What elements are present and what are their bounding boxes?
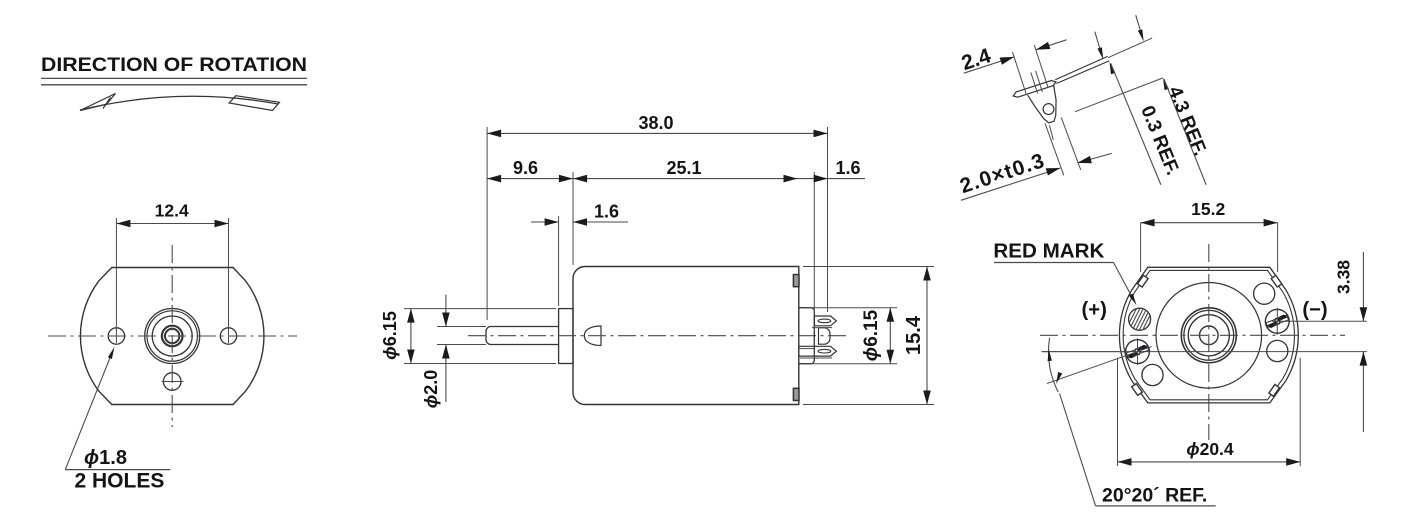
angle underline [1096,505,1216,507]
terminal bracket [819,328,831,344]
angle leader [1060,394,1096,506]
svg-text:ϕ6.15: ϕ6.15 [380,311,400,360]
side centerline [468,335,848,337]
dim 9.6/25.1 extension mid [572,172,574,265]
svg-text:ϕ2.0: ϕ2.0 [421,370,441,409]
leader phi1.8 [65,352,112,470]
rear horizontal centerline [1040,334,1345,336]
dim 15.4 line [926,267,928,405]
svg-text:2.4: 2.4 [959,44,994,75]
rear notch bottom-right [1269,385,1280,397]
terminal boss [799,308,815,364]
rear notch top-right [1271,275,1282,287]
dimension 12.4 extension lines [115,218,117,330]
svg-text:(+): (+) [1082,299,1107,321]
dim phi20.4 line [1118,461,1301,463]
svg-text:2 HOLES: 2 HOLES [75,470,165,493]
rear outline outer [1119,267,1298,403]
rear notch bottom-left [1132,384,1143,396]
svg-text:1.6: 1.6 [594,202,619,222]
dim 1.6 lower ext [558,216,560,306]
front hole right [220,328,236,344]
dim 1.6 right arrow [814,175,828,183]
terminal detail view (rotated) [917,0,1219,258]
rear endcap circle [1156,283,1262,389]
double underline [41,77,307,79]
rear notch top-left [1138,275,1149,287]
svg-text:ϕ20.4: ϕ20.4 [1186,439,1234,459]
dim 25.1 arrows [573,175,587,183]
angle ray horizontal [1042,351,1126,353]
dim 38.0 extension right [827,127,829,312]
rotation arc arrow [80,96,278,110]
dim 15.2 ext [1140,223,1142,272]
dim phi6.15 right line [889,308,891,364]
dimension 12.4 line [116,223,228,225]
svg-text:2.0×t0.3: 2.0×t0.3 [957,149,1048,198]
front hole bottom [163,373,181,391]
terminal height line lower [1042,351,1367,353]
rear bearing rings [1181,308,1236,363]
dim phi6.15 right ext [803,307,897,309]
dim row line [487,178,865,180]
front bushing middle circle [152,316,192,356]
svg-text:25.1: 25.1 [666,158,701,178]
svg-text:1.6: 1.6 [835,158,860,178]
dim 38.0 line [487,132,827,134]
terminal plus [1122,336,1153,367]
side shaft [486,327,559,345]
terminal bottom tab [799,346,837,356]
terminal minus [1262,306,1293,337]
rear vent top-right [1254,283,1275,304]
svg-text:15.2: 15.2 [1191,199,1225,219]
front hole left [108,328,124,344]
dim phi2.0 ext [437,326,486,328]
front horizontal centerline [48,335,297,337]
dim ext 814 [813,172,815,312]
rear vertical centerline [1208,244,1210,440]
svg-text:9.6: 9.6 [513,158,538,178]
dim 9.6 arrows [487,175,501,183]
dim phi6.15 left ext [404,308,556,310]
svg-text:38.0: 38.0 [638,113,673,133]
dim 1.6 lower line [531,221,559,223]
front view body outline [80,268,264,405]
svg-text:(−): (−) [1302,299,1327,321]
dim 38.0 extension left [486,127,488,320]
svg-text:ϕ1.8: ϕ1.8 [84,447,127,469]
side body outline [573,267,799,405]
front vertical centerline [171,245,173,427]
side bushing [559,309,573,364]
terminal top tab [814,316,836,326]
svg-text:15.4: 15.4 [903,315,925,355]
side crimp tab bottom [793,388,799,400]
terminal height line upper [1272,320,1367,322]
dim phi6.15 left line [410,309,412,364]
side internal shaft dome [584,326,601,346]
front bushing outer double circle [145,309,200,364]
svg-text:ϕ6.15: ϕ6.15 [861,309,882,361]
svg-text:12.4: 12.4 [155,200,189,220]
front hole tick marks [115,329,117,343]
red mark underline [994,262,1114,264]
svg-text:DIRECTION OF ROTATION: DIRECTION OF ROTATION [41,54,307,76]
svg-text:3.38: 3.38 [1334,260,1354,294]
dim 15.4 ext [803,266,934,268]
dim 15.2 line [1141,222,1278,224]
dim phi2.0 line [445,295,447,327]
rear vent bottom-left [1142,364,1163,385]
svg-text:20°20´ REF.: 20°20´ REF. [1102,484,1207,506]
dim 3.38 line [1362,252,1364,321]
dim phi20.4 ext [1117,358,1119,466]
red mark leader [1114,263,1135,302]
angle ray slanted [1047,347,1152,384]
svg-text:RED MARK: RED MARK [993,240,1105,262]
rear vent bottom-right [1267,340,1288,361]
angle arc [1049,338,1059,392]
side crimp tab top [793,275,799,287]
rear outline inner [1123,270,1294,399]
front shaft rings [162,326,183,347]
